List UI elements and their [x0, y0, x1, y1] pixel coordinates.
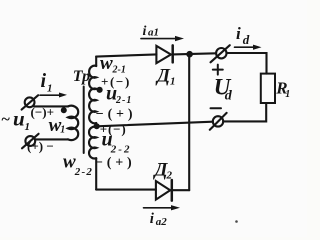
svg-text:1: 1: [285, 89, 290, 100]
svg-text:i: i: [150, 211, 155, 227]
svg-text:a2: a2: [156, 216, 168, 228]
node junction: [186, 51, 193, 58]
wire secondary bottom to diode D2: [96, 189, 156, 191]
terminal input top: [22, 95, 39, 109]
svg-text:Д: Д: [155, 66, 171, 87]
svg-text:−(+): −(+): [95, 156, 135, 171]
wire top from secondary to diode D1: [96, 54, 156, 56]
wire primary bottom: [35, 138, 68, 140]
winding w1: [68, 106, 78, 140]
wire center tap to output terminal: [94, 122, 213, 127]
winding w2-1: [89, 66, 96, 124]
svg-text:~: ~: [2, 111, 11, 128]
label R: [275, 79, 290, 101]
svg-text:d: d: [225, 89, 233, 104]
svg-text:i: i: [236, 24, 241, 43]
terminal input bottom: [22, 134, 39, 149]
terminal output minus: [210, 113, 227, 130]
label id: [236, 24, 250, 47]
wire D2 to vertical: [172, 189, 189, 191]
label w2-2: [63, 152, 93, 178]
svg-text:i: i: [41, 70, 47, 92]
node center tap: [95, 123, 97, 127]
svg-text:(+) −: (+) −: [27, 138, 54, 153]
label w1: [49, 115, 66, 136]
arrow ia1: [141, 36, 184, 41]
label u2-1: [106, 83, 132, 106]
svg-text:d: d: [243, 32, 250, 47]
wire terminal to corner: [227, 53, 267, 74]
svg-text:2-2: 2-2: [74, 166, 93, 178]
polarity dot w2-2: [94, 123, 100, 129]
speck artifact: [235, 220, 238, 223]
label ia2: [150, 211, 168, 228]
label ~u1: [2, 107, 31, 134]
svg-text:−(+): −(+): [96, 107, 136, 122]
wire D1 to node: [173, 53, 216, 54]
terminal output plus: [211, 45, 230, 62]
svg-text:1: 1: [170, 76, 176, 88]
minus sign above output terminal: [211, 107, 222, 109]
wire node down to D2 output: [188, 54, 190, 190]
svg-text:2-2: 2-2: [110, 143, 132, 155]
arrow ia2: [144, 205, 181, 210]
winding w2-2: [89, 127, 96, 159]
label D2: [153, 160, 173, 182]
polarity dot primary: [61, 107, 67, 113]
wire secondary top lead: [95, 57, 97, 66]
label Ud: [214, 75, 233, 104]
resistor R: [261, 74, 275, 103]
core: [83, 87, 85, 154]
polarity dot w2-1: [97, 87, 103, 93]
diode D2: [156, 180, 172, 201]
label D1: [155, 66, 176, 88]
label i1: [41, 70, 53, 95]
arrow i1: [40, 93, 67, 98]
plus sign output: [213, 65, 223, 75]
wire primary top: [34, 105, 68, 107]
svg-text:i: i: [143, 24, 147, 39]
arrow id: [235, 45, 262, 50]
svg-text:1: 1: [25, 121, 31, 133]
label u2-2: [102, 129, 132, 156]
svg-text:w: w: [100, 53, 113, 74]
svg-text:u: u: [13, 107, 25, 131]
wire secondary bottom lead: [95, 158, 97, 189]
label w2-1: [100, 53, 126, 76]
diode D1: [156, 45, 172, 63]
svg-text:a1: a1: [148, 27, 159, 39]
svg-text:2-1: 2-1: [115, 95, 132, 106]
wire resistor bottom: [223, 103, 266, 121]
svg-text:1: 1: [47, 83, 53, 95]
svg-text:2: 2: [166, 170, 173, 182]
svg-text:1: 1: [60, 124, 65, 135]
label ia1: [143, 24, 160, 39]
svg-text:Тр: Тр: [73, 68, 90, 85]
